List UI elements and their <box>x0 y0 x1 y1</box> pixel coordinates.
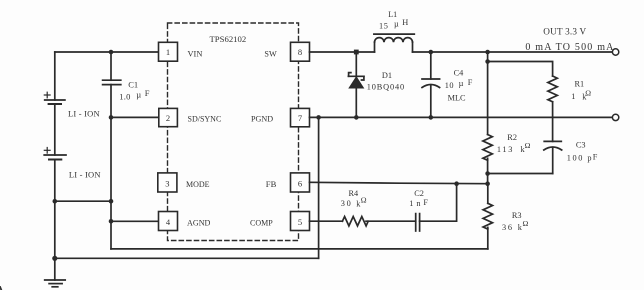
svg-text:VIN: VIN <box>188 49 203 58</box>
label C1 value <box>119 80 150 102</box>
svg-text:H: H <box>402 18 408 27</box>
junction output node / R2 branch <box>485 50 490 55</box>
svg-text:Ω: Ω <box>525 141 531 150</box>
svg-text:30: 30 <box>341 199 353 208</box>
junction PGND drop <box>316 115 321 120</box>
svg-text:SD/SYNC: SD/SYNC <box>188 115 222 124</box>
ground symbol <box>45 258 65 287</box>
capacitor C4 <box>422 52 440 117</box>
wire analog ground rail to R3 bottom <box>111 248 488 250</box>
svg-text:LI - ION: LI - ION <box>69 170 101 180</box>
terminal output positive <box>612 49 618 55</box>
pin 4 box <box>159 212 178 231</box>
junction D1 anode on PGND rail <box>354 115 359 120</box>
wire R2 bottom to FB wire <box>487 158 489 183</box>
wire between batteries <box>54 104 56 155</box>
svg-text:1: 1 <box>571 92 575 101</box>
junction AGND wire <box>109 219 114 224</box>
resistor R1 <box>548 76 557 102</box>
wire to R1 top <box>488 62 553 77</box>
svg-text:SW: SW <box>264 49 277 58</box>
junction R1 feed <box>485 59 490 64</box>
svg-text:F: F <box>423 198 428 207</box>
svg-text:µ: µ <box>394 19 399 28</box>
wire R4 to C2 <box>366 220 416 222</box>
wire SW output <box>310 51 375 53</box>
junction D1 cathode <box>354 50 359 55</box>
svg-text:10: 10 <box>445 81 454 90</box>
svg-text:Ω: Ω <box>361 195 367 204</box>
battery B2 LI-ION <box>44 148 66 160</box>
svg-text:8: 8 <box>298 47 302 57</box>
wire R1 bottom to C3 top <box>552 102 554 142</box>
wire to pin 2 <box>111 116 159 118</box>
svg-text:113: 113 <box>497 145 514 154</box>
svg-text:1.0: 1.0 <box>119 91 130 101</box>
label C4 value MLC <box>445 69 473 103</box>
svg-text:F: F <box>145 88 150 98</box>
svg-text:5: 5 <box>298 217 302 227</box>
svg-text:0 mA TO 500 mA: 0 mA TO 500 mA <box>525 42 614 53</box>
wire output branch down to R2 <box>487 52 489 135</box>
svg-text:µ: µ <box>136 89 141 99</box>
junction C4 top <box>429 50 434 55</box>
svg-text:COMP: COMP <box>250 218 273 227</box>
junction C4 bottom <box>429 115 434 120</box>
pin 7 box <box>291 108 310 126</box>
junction node VIN / C1 top <box>109 50 114 55</box>
capacitor C1 <box>103 52 121 117</box>
inductor L1 <box>374 34 414 52</box>
IC U1 TPS62102 dashed body <box>168 23 299 241</box>
wire C3 bottom to FB node <box>488 173 553 175</box>
pin 3 box <box>158 173 177 192</box>
svg-text:C1: C1 <box>128 80 138 90</box>
svg-text:p: p <box>587 154 591 163</box>
svg-text:n: n <box>416 199 421 208</box>
svg-text:F: F <box>593 153 598 162</box>
capacitor C2 <box>416 214 420 231</box>
svg-text:L1: L1 <box>388 10 397 19</box>
svg-text:PGND: PGND <box>251 115 273 124</box>
svg-text:10BQ040: 10BQ040 <box>367 83 405 92</box>
svg-text:LI - ION: LI - ION <box>68 109 100 119</box>
label L1 <box>379 10 408 31</box>
pin 2 box <box>159 108 178 126</box>
wire battery negative lead down <box>54 160 56 259</box>
svg-text:C4: C4 <box>454 69 465 78</box>
svg-text:R3: R3 <box>512 211 522 220</box>
terminal output return <box>612 114 618 120</box>
junction R2 bottom / C3 <box>485 171 490 176</box>
pin 8 box <box>291 42 310 61</box>
wire FB from pin 6 <box>310 182 488 183</box>
svg-text:OUT 3.3 V: OUT 3.3 V <box>543 26 586 36</box>
pin 6 box <box>291 173 310 192</box>
resistor R2 <box>483 135 492 161</box>
svg-text:µ: µ <box>459 79 464 88</box>
svg-text:1: 1 <box>409 199 413 208</box>
wire mid vertical down <box>110 117 112 249</box>
svg-text:6: 6 <box>298 178 302 188</box>
svg-text:A: A <box>0 283 5 290</box>
wire C2 to FB branch <box>420 184 457 222</box>
svg-text:R4: R4 <box>349 189 360 198</box>
svg-text:MODE: MODE <box>186 180 210 189</box>
label C3 value <box>567 141 598 163</box>
wire COMP from pin 5 <box>310 220 343 222</box>
diode D1 10BQ040 <box>348 52 364 117</box>
wire PGND rail to lower terminal <box>310 116 613 118</box>
svg-text:AGND: AGND <box>187 218 211 227</box>
pin 1 box <box>159 42 178 61</box>
svg-text:15: 15 <box>379 21 389 30</box>
svg-text:7: 7 <box>298 113 302 123</box>
svg-text:F: F <box>468 78 473 87</box>
wire PGND drop to ground rail <box>318 117 320 258</box>
svg-text:R1: R1 <box>575 79 585 88</box>
wire L1 to output terminal <box>413 51 613 53</box>
label C2 value <box>409 189 428 208</box>
svg-text:Ω: Ω <box>523 219 529 228</box>
resistor R4 <box>342 217 368 226</box>
wire battery negative to mid vertical <box>55 200 111 202</box>
svg-text:C3: C3 <box>576 141 586 150</box>
wire top rail from battery plus to pin 1 VIN <box>55 51 159 53</box>
label R1 value <box>571 79 591 101</box>
resistor R3 <box>483 184 492 249</box>
label R3 value <box>502 211 529 232</box>
junction FB node <box>485 181 490 186</box>
svg-text:D1: D1 <box>382 71 392 80</box>
pin 5 box <box>291 212 310 231</box>
svg-text:1: 1 <box>166 47 170 57</box>
svg-text:FB: FB <box>266 179 277 189</box>
svg-text:C2: C2 <box>414 189 424 198</box>
battery B1 LI-ION <box>44 92 65 104</box>
junction battery negative <box>53 199 58 204</box>
junction ground rail <box>52 256 57 261</box>
svg-text:3: 3 <box>165 178 169 188</box>
label R4 value <box>341 189 367 208</box>
svg-text:MLC: MLC <box>448 93 466 102</box>
capacitor C3 <box>544 141 562 173</box>
svg-text:Ω: Ω <box>585 89 591 98</box>
junction mid vertical at 201 <box>109 199 114 204</box>
junction C1 bottom / SD-SYNC <box>109 115 114 120</box>
svg-text:100: 100 <box>567 154 584 163</box>
wire battery positive lead <box>54 52 56 100</box>
svg-text:36: 36 <box>502 223 514 232</box>
wire to pin 4 AGND <box>111 220 159 222</box>
svg-text:2: 2 <box>166 113 170 123</box>
label D1 <box>367 71 405 92</box>
wire bottom power ground rail <box>55 257 319 259</box>
svg-text:R2: R2 <box>507 133 517 142</box>
svg-text:TPS62102: TPS62102 <box>210 34 247 44</box>
junction C2 branch on FB wire <box>454 181 459 186</box>
label R2 value <box>497 133 531 154</box>
